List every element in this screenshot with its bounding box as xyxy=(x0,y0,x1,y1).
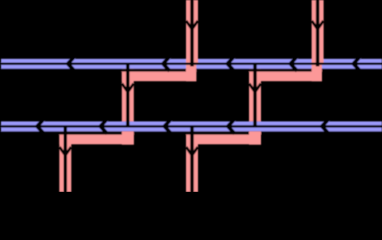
node path B pink segment J2 (drop rail1 to rail2 at x=255) xyxy=(249,69,261,122)
node path A pink segment J1 (drop rail1 to rail2 at x=127.8) xyxy=(122,69,134,122)
node J1 shaft xyxy=(126,63,130,127)
wire rail1 arrow 4 xyxy=(291,56,298,71)
node V1 shaft xyxy=(190,0,194,66)
wire rail2 lower edge stripe xyxy=(0,131,382,134)
node path B pink segment B2 (bottom drop at x=192) xyxy=(186,135,198,192)
node path B corner V2 pink overlay xyxy=(312,65,322,81)
node path A pink jog1 below rail1 xyxy=(122,69,197,81)
wire rail2 blue band xyxy=(1,121,382,131)
wire rail2 gap stripe xyxy=(0,125,382,127)
wire rail2 arrow 2 xyxy=(101,119,108,134)
wire rail2 arrow 1 xyxy=(37,119,44,134)
node path A pink jog2 below rail2 xyxy=(59,131,134,144)
node J1 arrowhead xyxy=(122,84,134,92)
node V2 shaft xyxy=(316,0,320,66)
node path B pink jog3 below rail1 xyxy=(249,69,322,81)
wire rail1 arrow 2 xyxy=(163,56,170,71)
node V2 arrowhead xyxy=(312,21,324,29)
node path B pink jog4 below rail2 xyxy=(186,131,261,144)
wire rail1 gap stripe xyxy=(0,63,382,65)
node B2 shaft xyxy=(190,126,194,194)
node path B corner J2 pink overlay xyxy=(249,131,261,144)
wire rail2 arrow 4 xyxy=(228,119,235,134)
node path A corner J1 pink overlay xyxy=(122,131,134,144)
node J2 shaft xyxy=(253,63,257,127)
node B2 arrowhead xyxy=(186,147,198,155)
wire rail2 arrow 5 xyxy=(322,119,329,134)
node V1 arrowhead xyxy=(186,21,198,29)
wire rail1 arrow 3 xyxy=(228,56,235,71)
node J2 arrowhead xyxy=(249,84,261,92)
node path A pink segment B1 (bottom drop at x=65.3) xyxy=(59,135,71,192)
wire rail2 arrow 3 xyxy=(165,119,172,134)
node path B pink segment V2 (top drop at x=317.6) xyxy=(312,0,324,63)
wire rail1 arrow 5 xyxy=(354,56,361,71)
node path A corner V1 pink overlay xyxy=(186,65,196,81)
wire rail1 blue band xyxy=(1,59,382,69)
node path A pink segment V1 (top drop at x=192) xyxy=(186,0,198,63)
wire rail1 lower edge stripe xyxy=(0,69,382,72)
node B1 shaft xyxy=(64,126,68,194)
wire rail1 arrow 1 xyxy=(68,56,75,71)
node B1 arrowhead xyxy=(59,147,71,155)
